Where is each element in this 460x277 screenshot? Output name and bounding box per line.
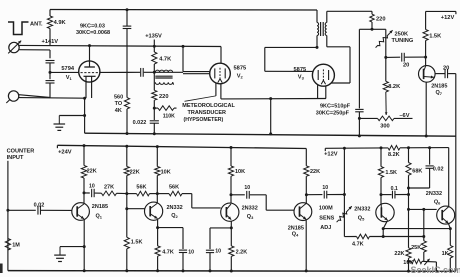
svg-text:ANT.: ANT.: [30, 21, 43, 27]
svg-text:9KC=0.03: 9KC=0.03: [80, 24, 105, 30]
svg-text:250K: 250K: [395, 32, 409, 38]
svg-text:INPUT: INPUT: [7, 155, 24, 161]
svg-text:300: 300: [380, 123, 390, 129]
svg-text:22K: 22K: [87, 169, 97, 175]
svg-text:2.2K: 2.2K: [236, 249, 248, 255]
svg-text:SeekIC.com: SeekIC.com: [411, 265, 460, 275]
svg-text:4.7K: 4.7K: [162, 249, 174, 255]
svg-text:2N185: 2N185: [92, 204, 108, 210]
svg-text:1.5K: 1.5K: [429, 34, 442, 40]
svg-text:10: 10: [89, 183, 95, 189]
svg-text:2N185: 2N185: [288, 225, 304, 231]
svg-text:METEOROLOGICAL: METEOROLOGICAL: [182, 103, 235, 109]
svg-text:1M: 1M: [12, 243, 20, 249]
svg-text:5875: 5875: [234, 66, 247, 72]
svg-text:10K: 10K: [235, 169, 245, 175]
svg-text:0.02: 0.02: [34, 202, 45, 208]
svg-text:COUNTER: COUNTER: [7, 148, 35, 154]
svg-text:22K: 22K: [394, 251, 404, 257]
svg-text:56K: 56K: [169, 185, 179, 191]
svg-text:4K: 4K: [115, 108, 122, 114]
svg-text:10: 10: [322, 185, 328, 191]
svg-text:Q6: Q6: [434, 199, 441, 205]
svg-text:1K: 1K: [442, 251, 449, 257]
svg-text:30KC=0.0068: 30KC=0.0068: [76, 30, 110, 36]
svg-text:2N332: 2N332: [167, 205, 183, 211]
svg-text:1.5K: 1.5K: [385, 170, 397, 176]
svg-text:56K: 56K: [136, 185, 146, 191]
svg-text:10K: 10K: [161, 169, 171, 175]
svg-text:2N332: 2N332: [354, 206, 370, 212]
svg-text:220: 220: [376, 17, 386, 23]
svg-text:V2: V2: [237, 74, 244, 80]
svg-text:2N332: 2N332: [426, 191, 442, 197]
svg-text:8.2K: 8.2K: [388, 84, 401, 90]
svg-text:25K: 25K: [411, 245, 421, 251]
svg-text:Q7: Q7: [436, 90, 443, 96]
svg-text:V1: V1: [66, 75, 73, 81]
svg-text:TRANSDUCER: TRANSDUCER: [188, 110, 227, 116]
svg-text:560: 560: [114, 95, 123, 101]
svg-text:TUNING: TUNING: [392, 38, 414, 44]
svg-text:2N185: 2N185: [431, 84, 447, 90]
svg-text:20: 20: [403, 62, 409, 68]
svg-text:100M: 100M: [319, 206, 333, 212]
svg-text:5875: 5875: [294, 67, 307, 73]
svg-text:30KC=250pF: 30KC=250pF: [316, 110, 350, 116]
svg-text:27K: 27K: [104, 185, 114, 191]
svg-text:+141V: +141V: [42, 39, 59, 45]
svg-text:SENS: SENS: [319, 215, 334, 221]
svg-text:4.9K: 4.9K: [54, 20, 67, 26]
svg-text:4.7K: 4.7K: [352, 242, 364, 248]
svg-text:Q5: Q5: [358, 216, 365, 222]
svg-text:–6V: –6V: [399, 113, 409, 119]
svg-text:10: 10: [188, 249, 194, 255]
svg-text:10: 10: [244, 185, 250, 191]
svg-text:V3: V3: [298, 75, 305, 81]
svg-text:Q4: Q4: [292, 232, 299, 238]
svg-text:8.2K: 8.2K: [388, 152, 400, 158]
svg-text:20: 20: [443, 66, 449, 72]
svg-text:22K: 22K: [310, 169, 320, 175]
svg-text:Q3: Q3: [247, 214, 254, 220]
svg-text:68K: 68K: [412, 169, 422, 175]
svg-text:220: 220: [159, 94, 169, 100]
svg-text:ADJ: ADJ: [320, 225, 331, 231]
svg-text:110K: 110K: [163, 113, 175, 119]
svg-text:+135V: +135V: [145, 33, 162, 39]
svg-text:22K: 22K: [130, 169, 140, 175]
svg-text:+24V: +24V: [58, 150, 72, 156]
svg-text:0.022: 0.022: [133, 120, 147, 126]
svg-text:TO: TO: [115, 101, 123, 107]
svg-text:2N332: 2N332: [242, 206, 258, 212]
svg-text:+12V: +12V: [324, 152, 338, 158]
svg-text:4.7K: 4.7K: [159, 56, 172, 62]
svg-text:+12V: +12V: [441, 15, 455, 21]
svg-text:0.1: 0.1: [391, 186, 398, 192]
svg-text:Q1: Q1: [96, 214, 103, 220]
svg-text:0.02: 0.02: [433, 167, 444, 173]
svg-text:5794: 5794: [61, 66, 74, 72]
svg-text:10: 10: [215, 249, 221, 255]
svg-text:(HYPSOMETER): (HYPSOMETER): [184, 117, 224, 123]
svg-text:Q2: Q2: [171, 213, 178, 219]
svg-text:9KC=510pF: 9KC=510pF: [320, 104, 351, 110]
svg-text:1.5K: 1.5K: [131, 240, 143, 246]
